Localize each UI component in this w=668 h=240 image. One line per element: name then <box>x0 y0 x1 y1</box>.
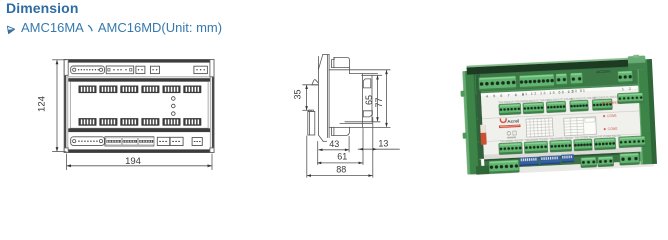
body seam line upper <box>478 111 640 119</box>
body back face double line <box>327 55 329 138</box>
cover top edge + 65 extension <box>362 74 382 76</box>
side spine bottom slant (clip lever) <box>318 135 323 141</box>
top terminal strip separator <box>68 76 210 78</box>
bottom mounting clip <box>332 127 350 135</box>
front view body outline <box>64 60 214 153</box>
dim 35 line <box>306 86 308 110</box>
top terminal block 1 (rounded with screws and dots) <box>71 66 105 74</box>
dim 35 extension lines <box>303 84 318 86</box>
dim 124 extension line bottom <box>53 151 67 153</box>
rail flange top bumps <box>309 110 311 111</box>
front face extension down for 13/61 <box>362 129 364 165</box>
svg-text:1 2: 1 2 <box>622 87 633 92</box>
top terminal block 3 <box>136 66 145 73</box>
left rail nubs <box>461 91 465 97</box>
top terminal block 4 <box>151 66 160 73</box>
Acrel logo <box>500 119 506 123</box>
step from clip to lip <box>349 68 351 74</box>
top terminal block 2 (long with dots) <box>106 66 134 74</box>
comb connector rows <box>79 86 202 126</box>
top PCB strip <box>475 66 639 95</box>
svg-text:35: 35 <box>293 89 303 99</box>
subtitle: AMC16MA, AMC16MD (Unit: mm) <box>21 20 222 35</box>
top dark band <box>68 60 210 63</box>
svg-text:COM2: COM2 <box>608 127 618 131</box>
bottom terminal block 3a <box>157 137 169 145</box>
heading: Dimension <box>6 0 78 16</box>
top lip line <box>350 73 378 75</box>
svg-text:65: 65 <box>364 95 374 105</box>
DIP switch 2 <box>540 155 560 164</box>
indicator circle 2 <box>172 104 176 108</box>
indicator circle 3 <box>172 112 176 116</box>
bottom left big terminal <box>489 160 520 174</box>
bottom right terminal 1 <box>581 157 597 168</box>
dim 65 line <box>377 76 379 121</box>
LED labels <box>602 102 604 104</box>
arrow bullet <box>6 24 20 36</box>
svg-text:POWER: POWER <box>606 101 620 106</box>
bottom terminal block 3b <box>170 137 183 145</box>
svg-text:13: 13 <box>378 138 388 148</box>
body front face <box>362 74 364 128</box>
DIP switch 3 <box>561 154 574 163</box>
bottom terminal block 1 (rounded with screws and dashes) <box>71 137 105 146</box>
upper dark band of mid panel <box>68 78 210 81</box>
svg-text:88: 88 <box>336 165 346 175</box>
front view right edge dark band <box>212 77 214 148</box>
body top edge + 77 extension <box>329 69 390 71</box>
top right clip square <box>363 79 371 88</box>
body seam line lower <box>479 134 641 142</box>
cover front extension down for 13/88 <box>372 118 374 178</box>
indicator circle 1 <box>172 97 176 101</box>
small cert icons <box>507 131 511 135</box>
right column lower terminal <box>619 136 646 148</box>
top bar right cap <box>628 56 646 70</box>
right column upper terminal <box>618 92 644 103</box>
front view left edge dark band <box>64 76 66 148</box>
dim 194 extension line right <box>211 154 213 170</box>
terminal cover front <box>371 75 373 122</box>
front view left side wall <box>67 62 69 150</box>
bottom right foot <box>210 148 214 153</box>
bottom left foot <box>64 148 68 153</box>
bottom right terminal 2 <box>598 156 614 167</box>
row3 terminal blocks <box>499 142 523 154</box>
side spine vertical <box>317 57 319 136</box>
svg-text:77: 77 <box>374 97 384 107</box>
left spec table <box>526 118 553 137</box>
white body <box>476 86 641 160</box>
bottom lip lines <box>345 121 380 123</box>
svg-text:50 51: 50 51 <box>572 89 586 94</box>
dim 43 extension line right <box>348 137 350 153</box>
DIN rail lower flange <box>308 111 315 135</box>
top mounting clip <box>332 57 350 67</box>
front view right side wall <box>209 62 211 150</box>
left green rail <box>463 71 482 175</box>
spine extension down for 43/61 <box>317 142 319 165</box>
device shadow <box>471 160 655 175</box>
svg-text:AC220V: AC220V <box>596 70 611 75</box>
bottom right clip square <box>363 111 372 117</box>
dim 194 extension line left <box>66 154 68 170</box>
dim 124 extension line top <box>53 59 67 61</box>
bottom right terminal 3 <box>619 153 639 165</box>
top left ear <box>64 60 68 76</box>
right spec table <box>564 117 597 136</box>
dim 13 line with outside arrows <box>358 148 399 150</box>
top terminal block 5 <box>194 66 208 73</box>
dim 88 line <box>308 175 372 177</box>
bottom dark band <box>68 149 210 152</box>
row1 shadow band <box>477 67 638 92</box>
lower dark band of mid panel <box>68 128 210 132</box>
svg-text:43: 43 <box>329 139 339 149</box>
svg-text:124: 124 <box>37 96 48 112</box>
bottom PCB strip <box>484 152 640 169</box>
bottom terminal block 4 <box>192 138 202 146</box>
svg-text:Acrel: Acrel <box>507 118 519 124</box>
dim 43 line <box>319 149 348 151</box>
dim 77 line <box>386 71 388 127</box>
red label streak on left face <box>480 125 487 145</box>
dim 194 line <box>67 165 211 167</box>
side spine top slant <box>318 55 322 69</box>
DIN rail clip hook <box>312 80 319 85</box>
dim 124 line <box>56 61 58 151</box>
left side dark column <box>475 74 484 159</box>
dim 61 line <box>318 162 363 164</box>
svg-text:61: 61 <box>337 152 347 162</box>
DIP switch 1 <box>520 157 539 166</box>
top dark bar <box>467 59 637 75</box>
bottom long comb connector <box>64 137 214 153</box>
bottom left foot <box>476 166 489 175</box>
mid panel frame <box>70 82 208 129</box>
svg-text:194: 194 <box>125 156 141 167</box>
svg-text:COM1: COM1 <box>607 114 617 118</box>
body bottom edge + 77 extension <box>329 126 390 128</box>
dim 88 extension left (rail) <box>306 136 308 177</box>
right green rail <box>635 59 657 165</box>
row1 terminal blocks <box>479 76 517 91</box>
row2 terminal blocks <box>499 103 521 115</box>
top right ear <box>210 60 214 77</box>
